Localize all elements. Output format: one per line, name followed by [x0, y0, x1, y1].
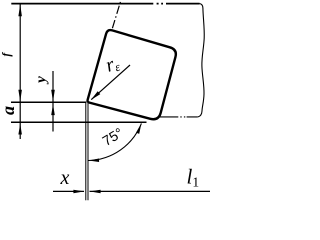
arrow x right	[73, 190, 84, 194]
dimension line x left	[53, 190, 84, 192]
top surface line	[11, 3, 199, 5]
machined surface continuation line	[158, 116, 198, 118]
dimension line l1	[90, 190, 211, 192]
svg-text:75°: 75°	[99, 124, 125, 149]
dimension line f	[19, 4, 21, 139]
arrow a up	[18, 124, 22, 135]
arrow f top	[18, 4, 22, 16]
arrow y down	[51, 90, 55, 102]
svg-text:x: x	[60, 167, 70, 189]
svg-text:l1: l1	[187, 165, 200, 190]
svg-text:a: a	[0, 106, 18, 115]
surface line 1	[11, 101, 86, 103]
arrow l1 left	[90, 190, 101, 194]
arrow f bottom	[18, 90, 22, 102]
arrow y up below line1	[51, 104, 55, 115]
centerline dash-dot	[112, 0, 121, 28]
insert body outline	[88, 30, 176, 119]
leader r_eps	[91, 65, 130, 100]
svg-text:y: y	[33, 76, 49, 85]
svg-text:rε: rε	[103, 52, 122, 77]
break line right	[198, 4, 204, 117]
arrow arc top	[136, 123, 141, 133]
surface line 2	[11, 121, 147, 123]
tool edge double line right	[87, 103, 89, 201]
svg-text:f: f	[1, 52, 13, 57]
angle arc 75deg	[89, 123, 142, 160]
tool edge double line left	[85, 102, 87, 200]
dimension line y	[52, 71, 54, 132]
arrow arc bottom	[89, 159, 100, 163]
arrow r_eps	[91, 91, 101, 100]
